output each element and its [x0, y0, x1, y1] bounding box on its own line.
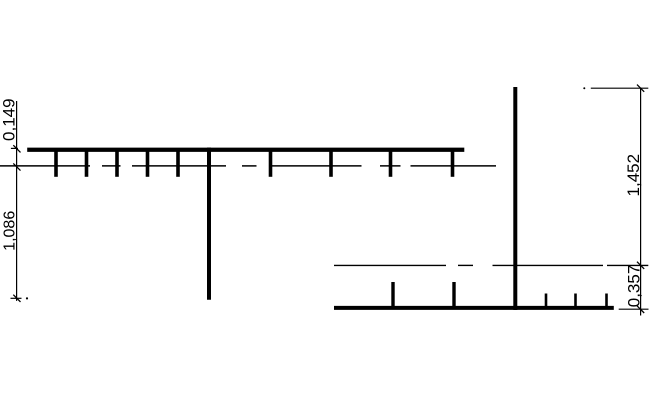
dimension line left: [16, 101, 18, 301]
dimension tick left at axis level: [13, 163, 20, 170]
svg-text:1,086: 1,086: [2, 211, 19, 251]
beam 2 axis (dashed thin centre line): [334, 264, 648, 266]
svg-text:1,452: 1,452: [624, 154, 643, 197]
extension stub left bottom: [11, 297, 22, 299]
dimension line right: [640, 88, 642, 316]
extension dot left bottom: [26, 297, 28, 299]
beam 2 vertical web (thick vertical line, right): [513, 87, 517, 310]
dimension tick right at flange level: [637, 306, 644, 313]
svg-text:0,357: 0,357: [625, 265, 644, 308]
extension stub right bottom: [619, 308, 649, 310]
dimension tick left at web bottom: [13, 295, 20, 302]
svg-text:0,149: 0,149: [0, 98, 19, 141]
beam 2 tall connector ticks: [393, 282, 454, 307]
beam 1 vertical web (thick vertical line): [207, 148, 211, 300]
extension dot right top: [583, 87, 585, 89]
beam 1 axis (dashed thin centre line): [0, 165, 496, 167]
beam 1 connector ticks (short vertical bars under flange): [56, 149, 453, 177]
beam 2 bottom flange (thick horizontal line): [334, 306, 614, 310]
extension stub left at flange level: [11, 147, 18, 149]
dimension tick left at flange level: [13, 145, 20, 152]
extension line right top: [591, 87, 649, 89]
dimension tick right at axis level: [637, 262, 644, 269]
beam 2 short connector ticks: [546, 294, 607, 308]
dimension tick right at web top: [637, 85, 644, 92]
beam 1 top flange (thick horizontal line, left): [27, 148, 464, 152]
